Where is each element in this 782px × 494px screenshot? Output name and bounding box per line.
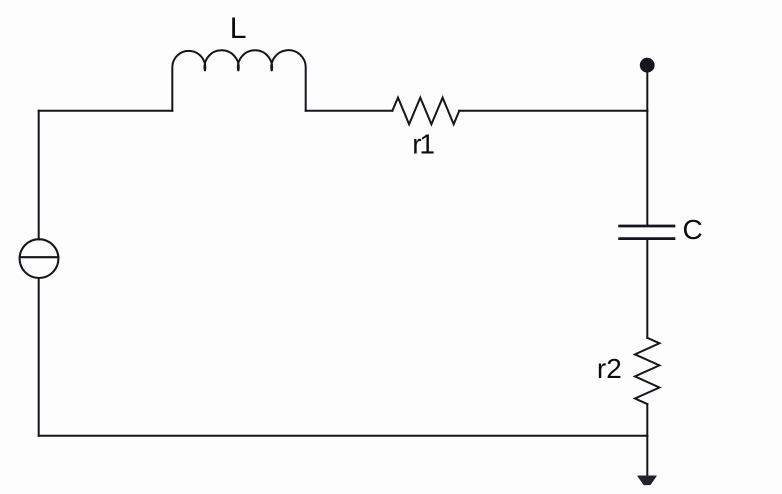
node A dot: [640, 58, 655, 73]
inductor L: [172, 50, 305, 111]
wire junction stub up to node: [646, 72, 648, 111]
wire junction down to capacitor: [646, 111, 648, 225]
ground: [638, 476, 656, 485]
svg-text:C: C: [683, 214, 703, 245]
wire junction to ground: [646, 436, 648, 478]
wire inductor to resistor: [306, 110, 393, 112]
current source I1: [20, 239, 59, 278]
svg-text:r2: r2: [597, 353, 622, 384]
svg-text:L: L: [230, 12, 247, 45]
wire left vertical upper: [38, 111, 40, 240]
wire bottom horizontal: [39, 435, 648, 437]
capacitor C top plate: [620, 225, 674, 228]
wire top-left horizontal: [39, 110, 173, 112]
wire capacitor to r2: [646, 240, 648, 338]
capacitor C bottom plate: [620, 237, 674, 240]
wire r2 to bottom junction: [646, 404, 648, 436]
wire left vertical lower: [38, 278, 40, 436]
wire resistor to junction: [459, 110, 647, 112]
resistor r1: [392, 98, 459, 125]
svg-text:r1: r1: [412, 129, 434, 160]
resistor r2: [635, 338, 659, 404]
